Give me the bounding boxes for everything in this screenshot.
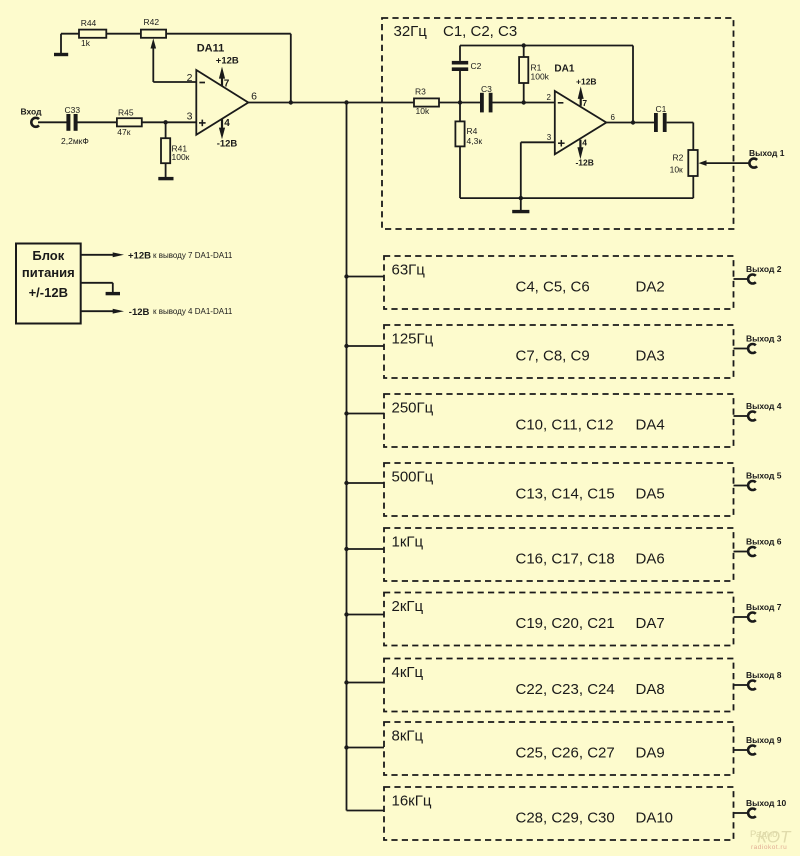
node junction bus tap 8кГц xyxy=(344,745,348,749)
wire 250Гц block to output 4 xyxy=(734,415,749,417)
wire bus to 125Гц block xyxy=(347,345,385,347)
svg-text:7: 7 xyxy=(224,79,230,90)
resistor R41 xyxy=(161,122,190,163)
node junction R1 bottom xyxy=(522,100,526,104)
dashed block filter 125Гц (DA3) xyxy=(384,325,734,378)
svg-text:7: 7 xyxy=(582,98,587,108)
node junction DA11 output feedback xyxy=(289,100,293,104)
svg-text:500Гц: 500Гц xyxy=(392,468,434,485)
capacitor C3 xyxy=(480,84,493,113)
svg-text:Выход 1: Выход 1 xyxy=(749,148,785,158)
svg-text:Выход 10: Выход 10 xyxy=(746,798,786,808)
svg-text:питания: питания xyxy=(22,265,75,280)
wire C3 to pin 2 DA1 xyxy=(493,102,555,104)
wire R45 to pin 3 xyxy=(142,121,197,123)
wire bus to 4кГц block xyxy=(347,682,385,684)
svg-text:C33: C33 xyxy=(65,105,81,115)
dashed block filter 32Hz xyxy=(382,18,734,229)
pin 7 +12V arrow of DA11 xyxy=(216,56,239,90)
node junction bus tap 250Гц xyxy=(344,411,348,415)
wire top rail left xyxy=(61,33,79,35)
ground G2 under R41 xyxy=(158,163,173,178)
svg-text:47к: 47к xyxy=(117,127,130,137)
dashed block filter 8кГц (DA9) xyxy=(384,722,734,775)
svg-text:3: 3 xyxy=(187,111,193,123)
svg-text:-12В: -12В xyxy=(217,138,238,149)
resistor R44 xyxy=(79,18,106,48)
wire input to C33 xyxy=(38,121,67,123)
svg-text:C10, C11, C12: C10, C11, C12 xyxy=(516,417,614,434)
wire pin 3 DA1 xyxy=(521,142,555,198)
svg-text:C16, C17, C18: C16, C17, C18 xyxy=(516,551,615,568)
wire bus to 16кГц block xyxy=(347,810,385,812)
svg-text:16кГц: 16кГц xyxy=(392,792,432,809)
svg-text:DA4: DA4 xyxy=(636,417,665,434)
svg-text:4: 4 xyxy=(224,118,230,129)
wire DA11 output to R3 xyxy=(248,102,414,104)
svg-text:6: 6 xyxy=(251,91,257,103)
svg-text:Выход 9: Выход 9 xyxy=(746,735,782,745)
connector output 10 xyxy=(746,798,786,818)
svg-text:DA9: DA9 xyxy=(636,745,665,762)
wire bottom rail 32Hz xyxy=(460,197,693,199)
node junction bus tap 4кГц xyxy=(344,680,348,684)
svg-text:R2: R2 xyxy=(673,153,684,163)
svg-text:DA6: DA6 xyxy=(636,551,665,568)
svg-text:Выход 8: Выход 8 xyxy=(746,670,782,680)
svg-text:DA3: DA3 xyxy=(636,348,665,365)
node junction bus tap 500Гц xyxy=(344,481,348,485)
svg-text:6: 6 xyxy=(611,113,616,122)
connector output 5 xyxy=(746,471,782,491)
svg-text:C7, C8, C9: C7, C8, C9 xyxy=(516,348,590,365)
svg-text:2: 2 xyxy=(547,93,552,102)
wire bus to 500Гц block xyxy=(347,482,385,484)
dashed block filter 63Гц (DA2) xyxy=(384,256,734,309)
pin 7 +12V arrow of DA1 xyxy=(576,76,597,108)
connector output 6 xyxy=(746,537,782,557)
svg-text:2: 2 xyxy=(187,72,193,84)
svg-text:radiokot.ru: radiokot.ru xyxy=(751,844,787,851)
svg-text:к выводу 4 DA1-DA11: к выводу 4 DA1-DA11 xyxy=(153,307,233,316)
svg-text:100к: 100к xyxy=(172,152,190,162)
resistor R4 xyxy=(455,103,482,199)
svg-text:Блок: Блок xyxy=(32,248,64,263)
wire bus to 63Гц block xyxy=(347,276,385,278)
svg-text:C28, C29, C30: C28, C29, C30 xyxy=(516,810,615,827)
svg-text:3: 3 xyxy=(547,133,552,142)
wire DA1 feedback riser xyxy=(632,46,634,123)
svg-text:DA1: DA1 xyxy=(554,64,574,75)
svg-text:4кГц: 4кГц xyxy=(392,664,424,681)
svg-text:-12В: -12В xyxy=(575,158,593,168)
svg-text:+12В: +12В xyxy=(216,56,239,67)
op-amp DA11 xyxy=(187,43,258,135)
wire DA1 output xyxy=(606,122,654,124)
connector output 8 xyxy=(746,670,782,690)
node junction ground tap xyxy=(519,196,523,200)
wire 500Гц block to output 5 xyxy=(734,485,749,487)
watermark logo xyxy=(750,828,792,852)
dashed block filter 2кГц (DA7) xyxy=(384,593,734,646)
wire 8кГц block to output 9 xyxy=(734,749,749,751)
wire bus to 250Гц block xyxy=(347,413,385,415)
node junction bus tap 2кГц xyxy=(344,612,348,616)
svg-text:2,2мкФ: 2,2мкФ xyxy=(61,136,89,146)
svg-text:100k: 100k xyxy=(531,72,550,82)
node junction at R41 tap xyxy=(163,120,167,124)
svg-text:DA8: DA8 xyxy=(636,681,665,698)
svg-text:Вход: Вход xyxy=(21,107,43,117)
potentiometer R2 xyxy=(670,150,750,198)
connector output 7 xyxy=(746,602,782,622)
svg-text:R45: R45 xyxy=(118,107,134,117)
band filter blocks 63Hz..16kHz inserted below xyxy=(344,256,786,840)
svg-text:-12В: -12В xyxy=(129,307,150,318)
resistor R3 xyxy=(414,87,439,117)
node A junction xyxy=(458,100,462,104)
svg-text:C1: C1 xyxy=(656,104,667,114)
svg-text:C3: C3 xyxy=(481,84,492,94)
svg-text:4: 4 xyxy=(582,138,587,148)
svg-text:8кГц: 8кГц xyxy=(392,727,424,744)
node junction R1 top xyxy=(522,43,526,47)
pin 4 -12V arrow of DA11 xyxy=(217,118,238,149)
svg-text:+/-12В: +/-12В xyxy=(29,285,68,300)
wire C1 to R2 xyxy=(667,123,694,151)
dashed block filter 250Гц (DA4) xyxy=(384,394,734,447)
connector output 2 xyxy=(746,264,782,284)
connector output 3 xyxy=(746,334,782,354)
svg-text:DA10: DA10 xyxy=(636,810,674,827)
svg-text:C13, C14, C15: C13, C14, C15 xyxy=(516,486,615,503)
wire bus to 8кГц block xyxy=(347,747,385,749)
power supply unit box xyxy=(16,244,81,324)
svg-text:10к: 10к xyxy=(670,164,683,174)
node junction bus tap 63Гц xyxy=(344,274,348,278)
-12V supply output wire and arrow xyxy=(81,307,233,318)
op-amp DA1 xyxy=(547,64,616,155)
ground G1 top-left xyxy=(54,34,68,55)
wire bus to 1кГц block xyxy=(347,548,385,550)
dashed block filter 500Гц (DA5) xyxy=(384,463,734,516)
connector output 4 xyxy=(746,401,782,421)
capacitor C1 xyxy=(654,104,667,132)
wire C33 to R45 xyxy=(77,121,117,123)
svg-text:63Гц: 63Гц xyxy=(392,261,426,278)
wire top rail right + feedback riser xyxy=(166,34,291,103)
svg-text:R3: R3 xyxy=(415,87,426,97)
svg-text:10k: 10k xyxy=(416,106,430,116)
resistor R1 xyxy=(519,46,550,103)
node junction bus tap 1кГц xyxy=(344,547,348,551)
svg-text:R4: R4 xyxy=(467,126,478,136)
pin 4 -12V arrow of DA1 xyxy=(575,138,593,168)
svg-text:250Гц: 250Гц xyxy=(392,399,434,416)
wire between R44 and R42 xyxy=(106,33,141,35)
svg-text:1кГц: 1кГц xyxy=(392,533,424,550)
svg-text:+12В: +12В xyxy=(128,251,151,262)
svg-text:C22, C23, C24: C22, C23, C24 xyxy=(516,681,615,698)
svg-text:Выход 6: Выход 6 xyxy=(746,537,782,547)
svg-text:DA11: DA11 xyxy=(197,43,225,55)
svg-text:C1, C2, C3: C1, C2, C3 xyxy=(443,23,517,40)
capacitor C2 xyxy=(452,46,482,103)
svg-text:4,3к: 4,3к xyxy=(467,136,483,146)
svg-text:DA2: DA2 xyxy=(636,279,665,296)
svg-text:к выводу 7 DA1-DA11: к выводу 7 DA1-DA11 xyxy=(153,251,233,260)
node junction DA1 feedback xyxy=(631,120,635,124)
connector output 1 xyxy=(749,148,785,168)
svg-text:1k: 1k xyxy=(81,38,91,48)
resistor R45 xyxy=(117,107,142,137)
svg-text:2кГц: 2кГц xyxy=(392,598,424,615)
+12V supply output wire and arrow xyxy=(81,251,233,262)
svg-text:Выход 4: Выход 4 xyxy=(746,401,782,411)
wire 2кГц block to output 7 xyxy=(734,616,749,618)
svg-text:DA7: DA7 xyxy=(636,615,665,632)
wire 1кГц block to output 6 xyxy=(734,551,749,553)
svg-text:Выход 2: Выход 2 xyxy=(746,264,782,274)
potentiometer R42 xyxy=(141,17,166,82)
node junction bus tap xyxy=(344,100,348,104)
node junction bus tap 125Гц xyxy=(344,344,348,348)
dashed block filter 16кГц (DA10) xyxy=(384,787,734,840)
dashed block filter 1кГц (DA6) xyxy=(384,528,734,581)
svg-text:32Гц: 32Гц xyxy=(394,23,428,40)
svg-text:+12В: +12В xyxy=(576,76,597,86)
capacitor C33 xyxy=(61,105,89,146)
wire 125Гц block to output 3 xyxy=(734,348,749,350)
wire R42 wiper to pin 2 xyxy=(153,81,196,83)
wire 4кГц block to output 8 xyxy=(734,684,749,686)
svg-text:125Гц: 125Гц xyxy=(392,330,434,347)
wire R3 to node A xyxy=(439,102,480,104)
svg-text:C2: C2 xyxy=(471,61,482,71)
wire main bus vertical xyxy=(346,103,348,811)
svg-text:C25, C26, C27: C25, C26, C27 xyxy=(516,745,615,762)
dashed block filter 4кГц (DA8) xyxy=(384,659,734,712)
connector output 9 xyxy=(746,735,782,755)
svg-text:Выход 5: Выход 5 xyxy=(746,471,782,481)
svg-text:Выход 7: Выход 7 xyxy=(746,602,782,612)
wire bus to 2кГц block xyxy=(347,614,385,616)
svg-text:DA5: DA5 xyxy=(636,486,665,503)
svg-text:Выход 3: Выход 3 xyxy=(746,334,782,344)
svg-text:R44: R44 xyxy=(81,18,97,28)
svg-text:C4, C5, C6: C4, C5, C6 xyxy=(516,279,590,296)
svg-text:R42: R42 xyxy=(144,17,160,27)
wire 16кГц block to output 10 xyxy=(734,812,749,814)
wire 63Гц block to output 2 xyxy=(734,278,749,280)
ground G3 supply xyxy=(81,283,120,294)
connector X1 input xyxy=(21,107,43,127)
svg-text:C19, C20, C21: C19, C20, C21 xyxy=(516,615,615,632)
ground G4 32Hz xyxy=(512,198,529,212)
wire top feedback rail 32Hz xyxy=(460,45,633,47)
